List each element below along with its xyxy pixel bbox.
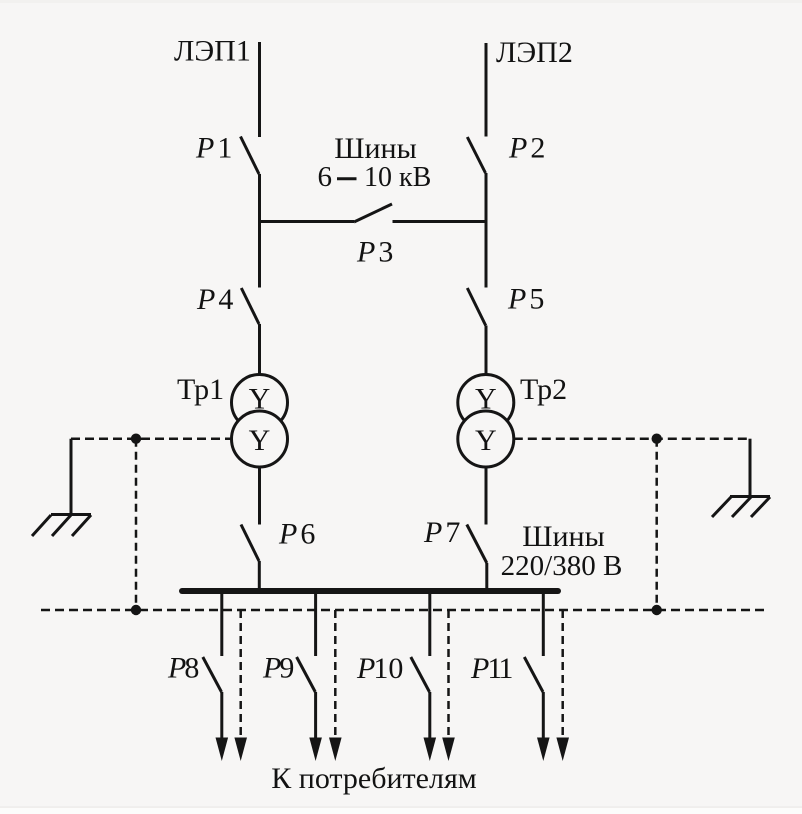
- svg-text:Р8: Р8: [167, 652, 199, 685]
- wire tie-bus left segment: [258, 220, 354, 223]
- wire tie bus to Р4: [258, 222, 261, 288]
- svg-text:ЛЭП1: ЛЭП1: [174, 35, 251, 68]
- disconnector Р3 blade: [354, 204, 392, 222]
- arrowhead feeder 2 solid: [309, 738, 322, 762]
- svg-text:6: 6: [318, 161, 333, 193]
- disconnector Р11 blade: [524, 657, 543, 692]
- svg-text:Тр1: Тр1: [177, 373, 224, 406]
- arrowhead feeder 1 solid: [216, 738, 229, 762]
- wire P2 to tie bus: [485, 173, 488, 223]
- disconnector Р7 blade: [467, 525, 487, 564]
- svg-text:Р3: Р3: [356, 236, 393, 269]
- wire Р4 to Тр1: [258, 324, 261, 375]
- svg-text:Y: Y: [475, 424, 497, 457]
- disconnector Р8 blade: [203, 657, 222, 692]
- disconnector Р2 blade: [467, 137, 485, 173]
- LV bus 220/380 В (thick bar): [182, 588, 558, 594]
- svg-text:Шины: Шины: [522, 520, 605, 553]
- wire Тр2 to Р7: [485, 467, 488, 525]
- svg-text:Р5: Р5: [507, 283, 544, 316]
- disconnector Р5 blade: [467, 288, 485, 326]
- svg-text:Р10: Р10: [356, 652, 403, 685]
- wire ЛЭП2 feeder: [485, 43, 488, 137]
- node junction dot lower right: [652, 605, 662, 615]
- svg-text:Р2: Р2: [508, 132, 545, 165]
- feeder group 4: wire drop from bus: [524, 593, 543, 740]
- transformer Тр1: [232, 375, 288, 468]
- neutral dashed drop feeder 4: [561, 610, 564, 740]
- feeder group 3: wire drop from bus: [411, 593, 430, 740]
- ground net: upper dashed left segment: [71, 437, 232, 440]
- transformer Тр2: [458, 375, 514, 468]
- node junction dot upper right: [652, 434, 662, 444]
- svg-text:Р6: Р6: [278, 518, 315, 551]
- wire P1 to tie bus: [258, 174, 261, 223]
- node junction dot upper left: [131, 434, 141, 444]
- wire Р5 to Тр2: [485, 326, 488, 376]
- disconnector Р1 blade: [241, 137, 260, 175]
- arrowhead feeder 3 solid: [424, 738, 437, 762]
- svg-text:10 кВ: 10 кВ: [364, 162, 431, 193]
- disconnector Р6 blade: [241, 525, 259, 562]
- feeder group 1: wire drop from bus: [203, 593, 222, 740]
- svg-text:Y: Y: [249, 424, 271, 457]
- neutral dashed drop feeder 3: [447, 610, 450, 740]
- svg-text:ЛЭП2: ЛЭП2: [496, 36, 573, 69]
- svg-text:Y: Y: [475, 383, 497, 416]
- wire Р11 arrow shaft: [542, 692, 545, 740]
- wire tie-bus right segment: [393, 220, 488, 223]
- disconnector Р9 blade: [297, 657, 316, 692]
- arrowhead feeder 4 solid: [537, 738, 550, 762]
- svg-text:Р4: Р4: [196, 283, 233, 316]
- wire Р6 to LV bus: [258, 561, 261, 591]
- wire Р10 arrow shaft: [428, 692, 431, 740]
- ground symbol left: [32, 439, 91, 536]
- disconnector Р10 blade: [411, 657, 430, 692]
- ground net: vertical dashed right: [655, 439, 658, 610]
- arrowhead dashed feeder 1: [234, 738, 247, 762]
- ground net: vertical dashed left: [135, 439, 138, 610]
- svg-text:Р7: Р7: [423, 516, 460, 549]
- svg-text:Шины: Шины: [334, 132, 417, 165]
- svg-text:220/380 В: 220/380 В: [501, 550, 623, 582]
- wire Р9 arrow shaft: [314, 692, 317, 740]
- wire tie bus to Р5: [485, 222, 488, 288]
- arrowhead dashed feeder 4: [556, 738, 569, 762]
- ground net: upper dashed right segment: [514, 437, 750, 440]
- svg-text:Тр2: Тр2: [520, 373, 567, 406]
- svg-text:Y: Y: [249, 383, 271, 416]
- neutral dashed drop feeder 2: [334, 610, 337, 740]
- feeder group 2: wire drop from bus: [297, 593, 316, 740]
- wire Р8 arrow shaft: [220, 692, 223, 740]
- ground symbol right: [712, 439, 770, 517]
- neutral dashed drop feeder 1: [239, 610, 242, 740]
- svg-text:Р11: Р11: [470, 652, 513, 685]
- svg-text:Р9: Р9: [262, 652, 294, 685]
- wire Р7 to LV bus: [485, 563, 488, 591]
- arrowhead dashed feeder 3: [442, 738, 455, 762]
- wire Тр1 to Р6: [258, 467, 261, 525]
- arrowhead dashed feeder 2: [329, 738, 342, 762]
- ground net: lower dashed horizontal: [41, 609, 768, 612]
- disconnector Р4 blade: [241, 288, 259, 324]
- node junction dot lower left: [131, 605, 141, 615]
- wire ЛЭП1 feeder: [258, 42, 261, 137]
- svg-text:К потребителям: К потребителям: [271, 762, 476, 795]
- svg-text:Р1: Р1: [195, 132, 232, 165]
